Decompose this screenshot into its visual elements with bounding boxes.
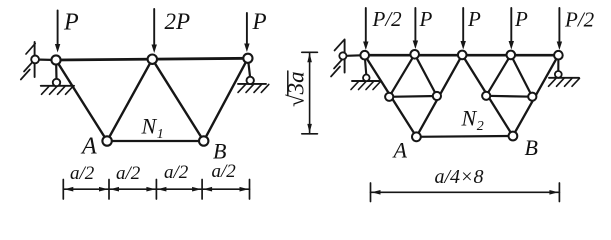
roller circle under R1 (363, 75, 370, 82)
svg-text:P: P (419, 7, 433, 31)
label N2 (461, 106, 484, 134)
wire link wall-pin to node T1 (35, 58, 56, 61)
node T2 (148, 55, 157, 64)
svg-text:B: B (213, 139, 226, 164)
roller circle under T1 (53, 79, 60, 86)
dimension line a/4 x 8 under truss N2 (371, 183, 560, 202)
node M3 (482, 92, 490, 100)
member diagonal T3-B (204, 58, 248, 141)
load arrow 2P at T2 (152, 9, 157, 53)
dimension line a/2 x4 under truss N1 (63, 180, 249, 200)
wire link R5 to ground roller (557, 55, 559, 71)
svg-text:a/2: a/2 (212, 161, 237, 182)
node M1 (385, 93, 393, 101)
node T1 (51, 55, 60, 64)
node R3 (458, 51, 467, 60)
member diagonal T1-A (56, 60, 107, 141)
wall pin circle (31, 56, 39, 64)
ground under left support of N2 (351, 81, 381, 90)
wall pin circle of N2 (339, 52, 346, 59)
wall (left support of truss N2) (331, 40, 345, 77)
wall (left support of truss N1) (21, 42, 35, 80)
roller circle under T3 (247, 77, 254, 84)
load arrow P at T1 (55, 10, 60, 52)
node R2 (410, 50, 419, 59)
node R4 (507, 51, 516, 60)
member mid chord M1-M2 (389, 95, 437, 98)
ground under right support of N1 (238, 84, 269, 93)
load arrow P at R3 (461, 8, 466, 50)
load arrow P at R4 (509, 8, 514, 50)
member R2-M2 (415, 54, 437, 96)
load arrow P at R2 (413, 8, 418, 49)
label N1 (141, 114, 164, 142)
load arrow P/2 at R1 (363, 8, 368, 50)
svg-text:2P: 2P (165, 9, 191, 34)
svg-text:2: 2 (477, 119, 484, 134)
member bottom chord A-B of N2 (416, 135, 513, 138)
svg-text:A: A (392, 138, 408, 163)
svg-text:a/2: a/2 (70, 163, 95, 184)
svg-text:A: A (80, 133, 97, 159)
svg-text:P/2: P/2 (564, 8, 595, 32)
wire link R1 to ground roller (365, 55, 367, 75)
ground under right support of N2 (549, 78, 580, 87)
wire link wall-pin to node R1 (343, 54, 365, 57)
svg-text:a/2: a/2 (116, 163, 141, 184)
member diagonal R5-B (through M4) (513, 55, 559, 136)
member R4-M3 (486, 55, 511, 96)
node A (102, 136, 111, 145)
member diagonal T2-A (107, 59, 152, 141)
load arrow P at T3 (244, 13, 249, 52)
node R5 (554, 51, 563, 60)
node A of N2 (412, 132, 421, 141)
member R2-M1 (389, 54, 415, 97)
member diagonal T2-B (152, 59, 203, 141)
svg-text:P/2: P/2 (372, 7, 403, 31)
wire link T3 to ground roller (248, 58, 250, 78)
member diagonal R3-A (through M2) (416, 55, 462, 137)
svg-text:1: 1 (157, 127, 164, 142)
member diagonal R3-B (through M3) (462, 55, 513, 136)
node R1 (360, 51, 369, 60)
svg-text:a/4×8: a/4×8 (435, 166, 484, 188)
load arrow P/2 at R5 (557, 8, 562, 50)
node T3 (243, 54, 252, 63)
svg-text:P: P (252, 9, 267, 34)
wire link T1 to ground roller (55, 60, 58, 80)
node M4 (528, 93, 536, 101)
ground under left support of N1 (41, 86, 74, 95)
member R4-M4 (511, 55, 533, 97)
member top chord R1-R5 (365, 54, 559, 57)
member top chord T1-T2-T3 (56, 58, 248, 60)
svg-text:P: P (467, 7, 481, 31)
svg-text:P: P (63, 10, 79, 36)
node M2 (433, 92, 441, 100)
svg-text:P: P (514, 7, 528, 31)
member diagonal R1-A (through M1) (365, 55, 417, 137)
label sqrt(3)a (rotated) (284, 71, 309, 107)
svg-text:B: B (525, 135, 538, 160)
svg-text:a/2: a/2 (164, 162, 189, 183)
member bottom chord A-B (107, 140, 204, 142)
node B of N2 (509, 132, 518, 141)
svg-text:N: N (461, 106, 478, 131)
node B (199, 136, 208, 145)
roller circle under R5 (555, 71, 562, 78)
member mid chord M3-M4 (486, 95, 532, 98)
svg-text:N: N (141, 114, 158, 139)
